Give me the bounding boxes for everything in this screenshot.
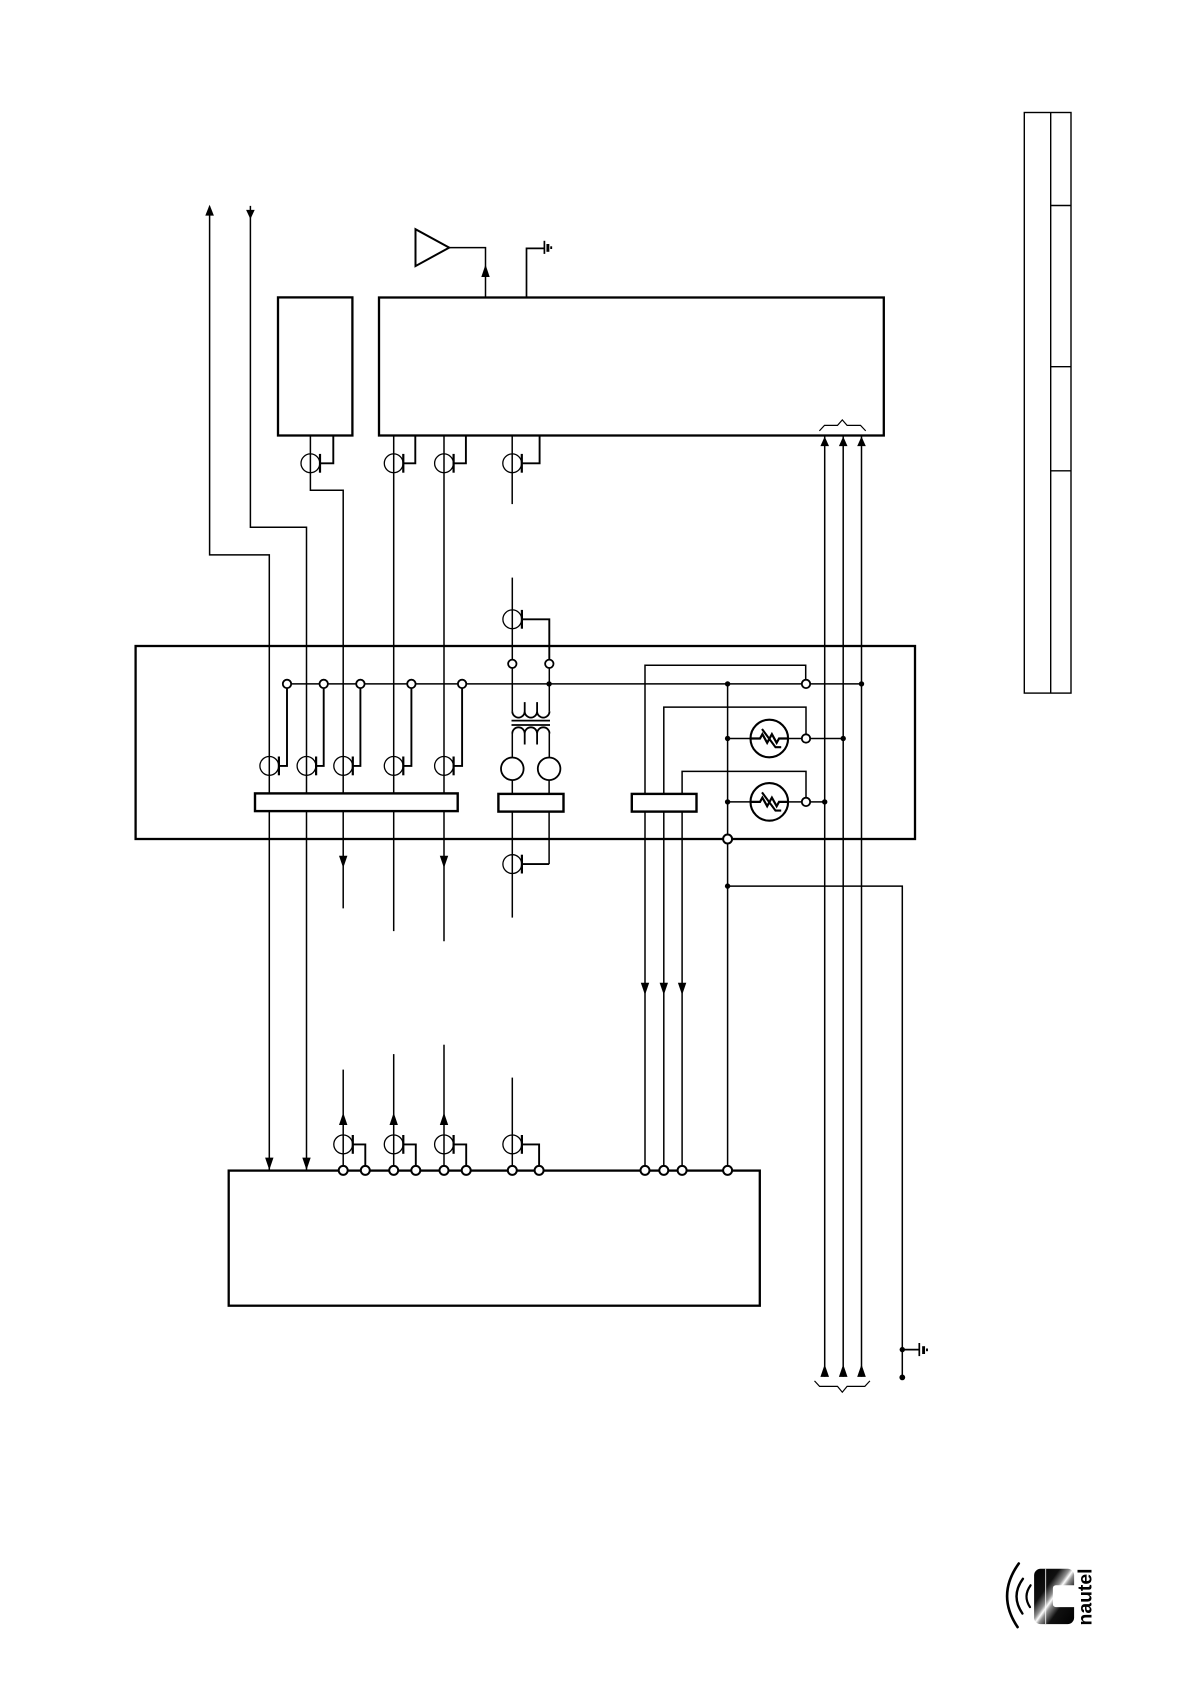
connector P9 above bottom box <box>503 1078 539 1167</box>
connector P5 in middle box <box>435 684 463 775</box>
brace at large box bottom <box>819 420 865 431</box>
connector P6 above bottom box <box>334 1070 365 1167</box>
thermistor column wire <box>727 684 729 1166</box>
connector under small box <box>301 436 347 909</box>
secondary leads below strip TB2 <box>512 812 549 918</box>
transformer T1 secondary winding <box>512 727 549 757</box>
wire TB3-2 to thermistor RT1 <box>664 707 806 794</box>
ground tap wire to bottom right <box>728 886 903 1377</box>
chassis ground (bottom right) <box>899 1343 927 1380</box>
connector P8 above bottom box <box>435 1045 467 1167</box>
block: middle box <box>136 646 915 839</box>
wire to antenna (left, with up arrow) <box>205 205 273 1170</box>
node dot ground tap <box>725 883 730 888</box>
amplifier triangle <box>416 229 450 266</box>
nautel logo C block <box>1034 1569 1077 1624</box>
brace below harness <box>815 1381 870 1392</box>
block: small top box <box>278 297 352 435</box>
terminal strip TB2 (middle) <box>498 794 563 812</box>
chassis ground (top) <box>527 241 552 298</box>
title block frame <box>1024 113 1071 694</box>
wire harness line 2 (x=843.2) <box>839 436 848 1377</box>
bus wire inside middle box <box>287 683 862 685</box>
leads to strip TB2 <box>512 780 549 794</box>
connector P1 in middle box <box>260 684 287 775</box>
wire amp output to box (up arrow) <box>449 248 490 298</box>
connector J2 under large box <box>435 436 466 942</box>
nautel logo sound wave arcs <box>1007 1564 1031 1628</box>
node dot bus/thermistor column <box>725 681 730 686</box>
svg-text:nautel: nautel <box>1076 1569 1097 1626</box>
connector P7 above bottom box <box>384 1054 415 1166</box>
feedthrough terminal on middle box bottom edge <box>723 835 732 844</box>
connector J1 under large box <box>384 436 415 932</box>
wire TB3-3 to thermistor RT2 <box>682 771 806 797</box>
bus terminal circles <box>283 680 810 688</box>
wire from antenna (left, with down arrow) <box>246 206 311 1170</box>
connector above transformer <box>503 578 549 660</box>
terminal strip TB1 (left) <box>255 793 458 811</box>
transformer T1 core <box>512 721 551 725</box>
node dot bus/harness line 3 <box>859 681 864 686</box>
transformer T1 primary feed terminals <box>508 660 553 668</box>
wire TB3-2 to bottom box <box>660 812 668 1167</box>
connector P4 in middle box <box>384 684 411 775</box>
connector P3 in middle box <box>334 684 361 775</box>
wire TB3-3 to bottom box <box>678 812 686 1167</box>
terminal strip TB3 (right) <box>632 794 697 812</box>
block: bottom box <box>229 1171 760 1306</box>
connector J3 under large box <box>503 436 540 505</box>
connector below transformer <box>503 855 549 874</box>
wire TB3-1 to bus terminal <box>645 665 806 794</box>
connector P2 in middle box <box>297 684 324 775</box>
thermistor RT2 <box>725 783 828 821</box>
block: large top box <box>379 298 884 436</box>
thermistor RT1 <box>725 720 846 758</box>
terminal circles on bottom box top edge <box>339 1166 732 1175</box>
wire harness line 3 (x=861.5) <box>857 436 866 1377</box>
transformer T1 primary winding <box>512 668 549 718</box>
node dot bus/transformer <box>546 681 551 686</box>
current sense circles <box>501 758 560 781</box>
wire TB3-1 to bottom box <box>641 812 649 1167</box>
wire harness line 1 (x=824.7) <box>820 436 829 1377</box>
